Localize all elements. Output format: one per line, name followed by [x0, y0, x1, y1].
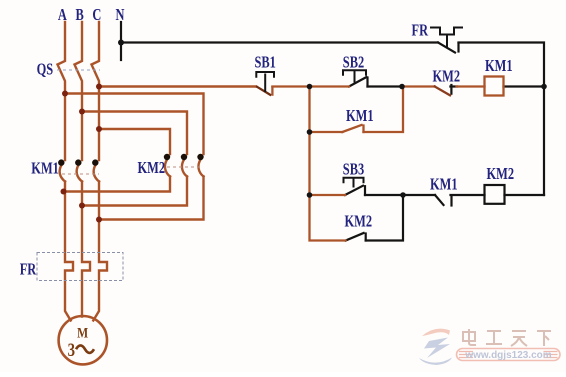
svg-text:KM2: KM2 — [345, 213, 373, 231]
svg-text:SB2: SB2 — [343, 54, 364, 72]
svg-text:KM2: KM2 — [487, 165, 515, 183]
svg-text:KM1: KM1 — [31, 160, 59, 178]
svg-text:KM1: KM1 — [430, 176, 458, 194]
svg-text:QS: QS — [37, 61, 54, 79]
svg-text:KM2: KM2 — [138, 159, 166, 177]
svg-text:3: 3 — [68, 339, 75, 360]
svg-text:SB1: SB1 — [255, 54, 276, 72]
svg-text:A: A — [58, 6, 67, 24]
svg-text:KM1: KM1 — [485, 57, 513, 75]
svg-text:N: N — [116, 6, 125, 24]
svg-text:KM1: KM1 — [346, 107, 374, 125]
svg-text:KM2: KM2 — [433, 68, 461, 86]
svg-text:C: C — [92, 6, 101, 24]
svg-text:SB3: SB3 — [343, 161, 364, 179]
svg-text:M: M — [77, 324, 88, 341]
svg-text:FR: FR — [20, 261, 37, 279]
svg-text:www.dgjs123.com: www.dgjs123.com — [464, 350, 551, 361]
svg-text:FR: FR — [412, 22, 429, 40]
svg-text:B: B — [75, 6, 83, 24]
